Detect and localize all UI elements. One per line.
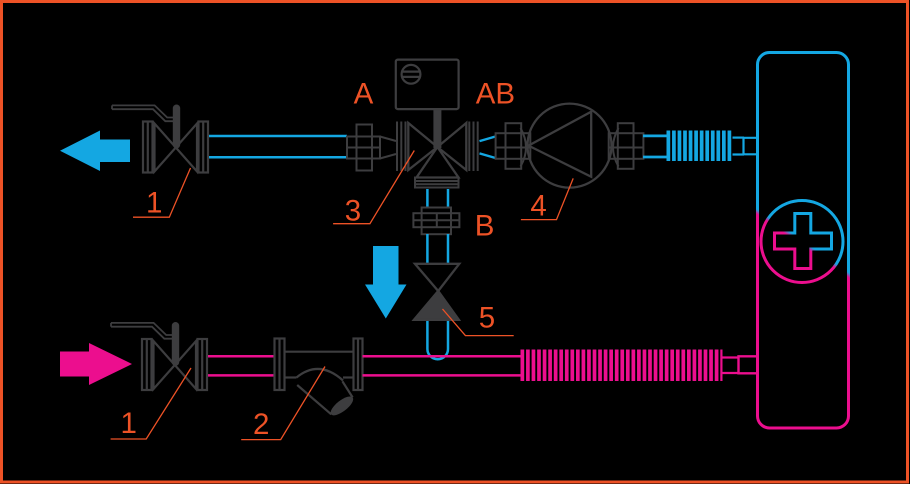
svg-text:1: 1 — [121, 407, 137, 440]
pipe B branch lower with U end (blue) — [427, 321, 448, 359]
boiler body — [758, 53, 849, 429]
flex hose (bottom, corrugated magenta) — [521, 349, 723, 381]
leader line 1 (bottom) — [111, 368, 191, 439]
bottom port bar of valve 3 — [415, 178, 459, 188]
flow arrow down (blue) — [365, 246, 407, 319]
pipe B branch middle (blue vertical) — [427, 234, 448, 265]
flow arrow in (magenta, bottom-left) — [60, 343, 132, 385]
leader line 4 — [521, 178, 573, 219]
pipe hose to boiler stub (blue) — [733, 138, 745, 155]
flange A-side of valve 3 — [397, 122, 406, 172]
svg-text:AB: AB — [476, 77, 515, 110]
pipe hose to boiler stub (magenta) — [723, 358, 740, 374]
flange AB-side of valve 3 — [469, 122, 477, 172]
check valve 5 — [414, 264, 459, 320]
boiler emblem circle — [761, 201, 843, 283]
leader line 3 — [333, 151, 414, 224]
flex hose (top, corrugated blue) — [667, 131, 733, 162]
pump 4 — [528, 104, 612, 188]
leader line 5 — [443, 309, 514, 336]
ball valve 1 (bottom) — [111, 322, 207, 390]
pipe (top, valve to union) — [209, 136, 347, 157]
union nut A-side — [347, 125, 380, 171]
flow arrow out (blue, top-left) — [60, 131, 130, 172]
svg-text:1: 1 — [146, 187, 162, 220]
boiler emblem cross — [775, 214, 832, 269]
union nut on B branch — [413, 208, 459, 235]
pipe valve to strainer (magenta) — [208, 356, 275, 375]
actuator U (servo box) — [396, 60, 459, 110]
svg-text:5: 5 — [479, 302, 495, 335]
svg-text:B: B — [475, 210, 495, 243]
svg-text:3: 3 — [345, 195, 361, 228]
actuator stem — [433, 108, 441, 148]
pipe stub valve3 to pump union (blue diverging) — [480, 137, 496, 158]
boiler stub bottom (magenta) — [739, 356, 758, 373]
reducer cone A-side — [380, 137, 396, 159]
boiler stub top (blue) — [744, 138, 758, 155]
leader line 2 — [241, 367, 325, 440]
pipe B branch upper (blue vertical) — [427, 189, 448, 209]
pump union (left) — [496, 123, 531, 169]
3-way mixing valve 3 body — [408, 123, 466, 178]
ball valve 1 (top) — [112, 105, 208, 173]
strainer 2 — [275, 339, 363, 419]
pipe strainer to flex hose (magenta) — [363, 356, 522, 375]
pipe pump to flex hose (blue) — [643, 136, 667, 157]
leader line 1 (top) — [133, 168, 191, 217]
svg-text:4: 4 — [530, 189, 546, 222]
svg-text:2: 2 — [253, 408, 269, 441]
svg-text:A: A — [354, 77, 374, 110]
pump union (right) — [609, 123, 644, 169]
